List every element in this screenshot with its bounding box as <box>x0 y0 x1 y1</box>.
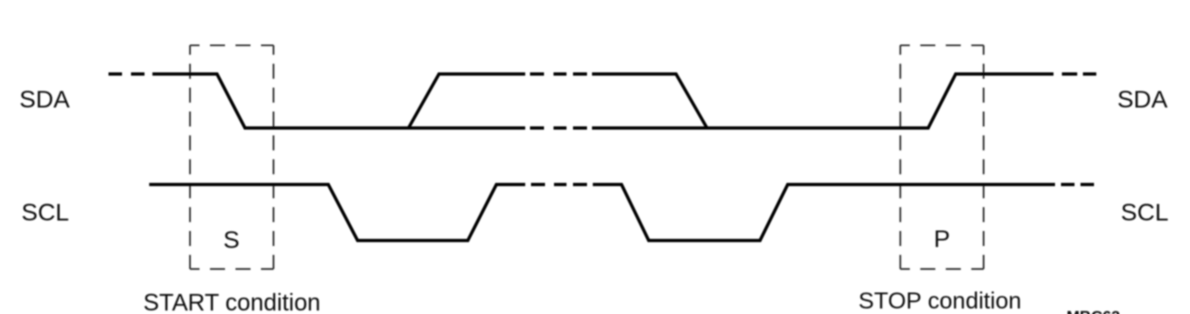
svg-text:SDA: SDA <box>19 87 70 114</box>
svg-text:SCL: SCL <box>21 199 69 226</box>
svg-text:STOP condition: STOP condition <box>858 287 1021 313</box>
svg-text:SCL: SCL <box>1121 199 1169 226</box>
svg-text:S: S <box>223 227 239 254</box>
svg-text:MBC62: MBC62 <box>1067 309 1121 314</box>
svg-text:START condition: START condition <box>143 289 320 314</box>
svg-text:SDA: SDA <box>1117 87 1168 114</box>
svg-text:P: P <box>934 226 950 253</box>
